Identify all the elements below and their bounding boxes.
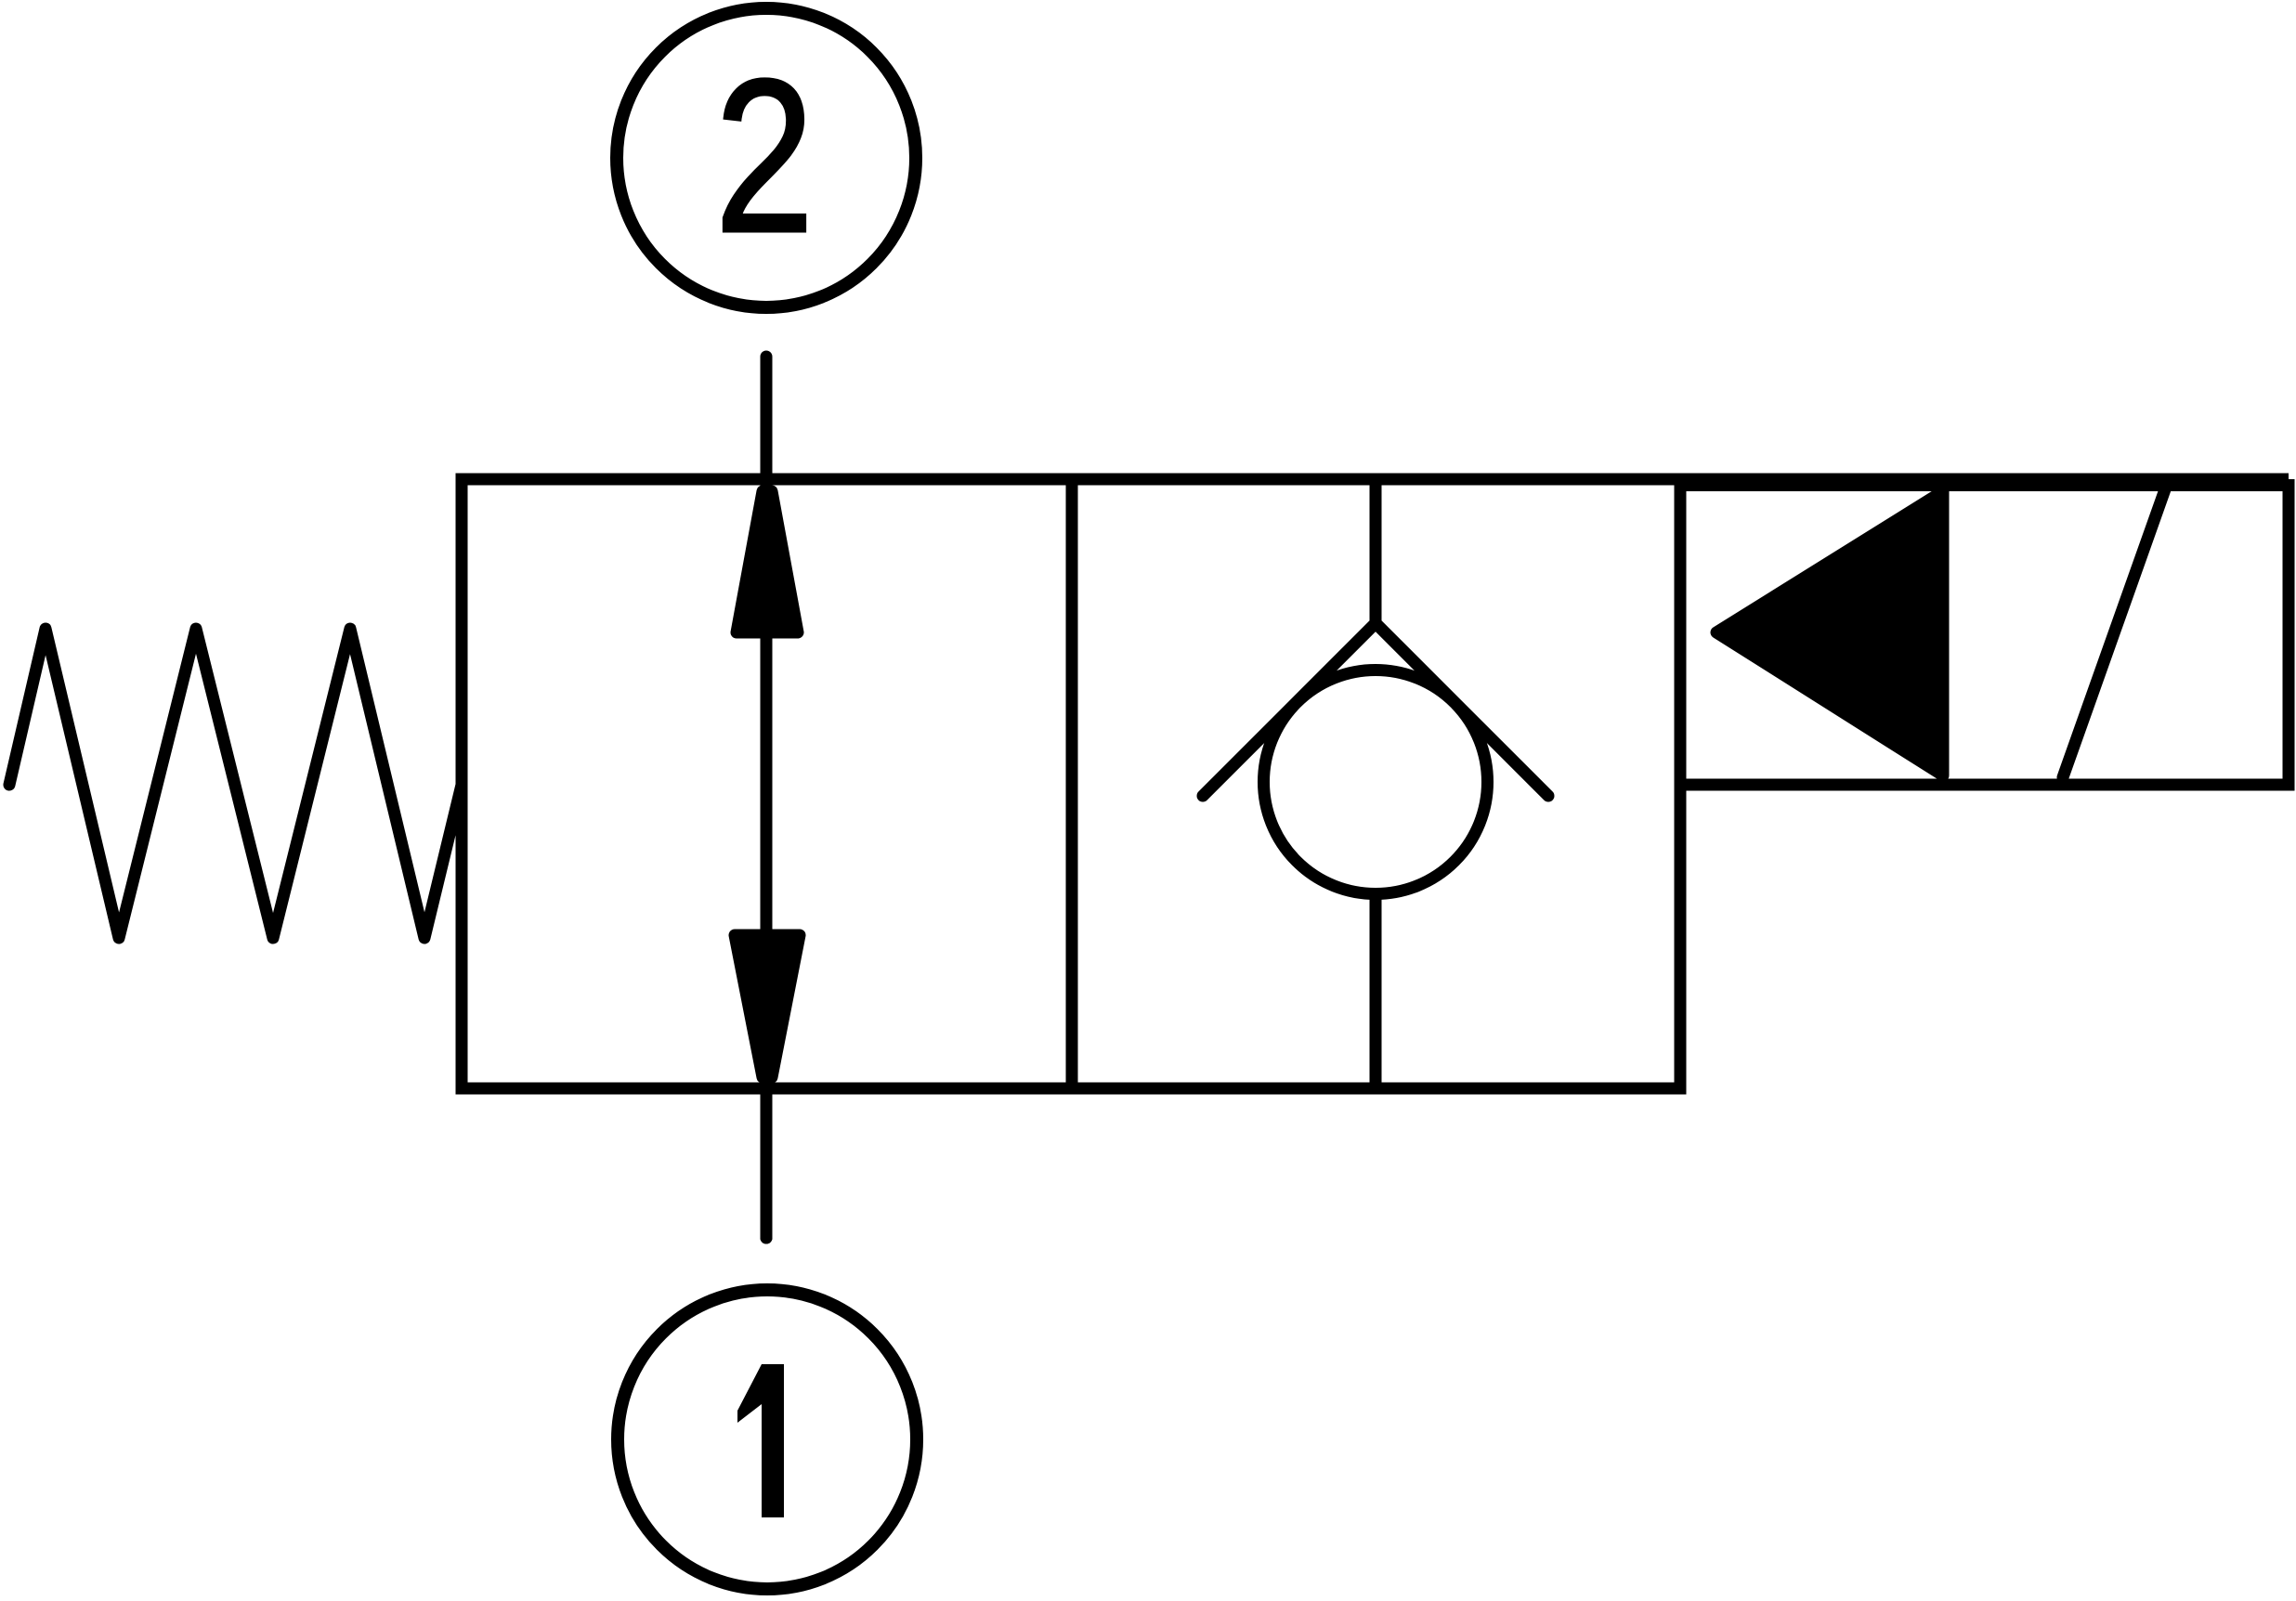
valve body right box [1072,479,1680,1088]
port circle 1 [618,1290,917,1589]
valve body left box [462,479,1072,1088]
port label 1 [737,1364,784,1517]
spring [9,629,462,938]
port 2 wire [761,357,773,483]
solenoid slash [2063,489,2165,777]
port 1 wire [761,1088,773,1238]
flow arrowhead down [735,935,800,1077]
flow path shaft [761,483,773,1238]
check valve stem lower [1370,892,1382,1088]
check valve seat [1203,623,1548,796]
solenoid top rail [1680,474,2289,486]
svg-text:2: 2 [714,33,814,279]
port label 2 [714,33,814,279]
port circle 2 [617,8,916,307]
check valve stem upper [1370,479,1382,623]
flow arrowhead up [737,491,798,632]
check valve ball [1264,670,1488,894]
solenoid arrow triangle [1716,491,1943,775]
solenoid box [1680,486,2289,786]
